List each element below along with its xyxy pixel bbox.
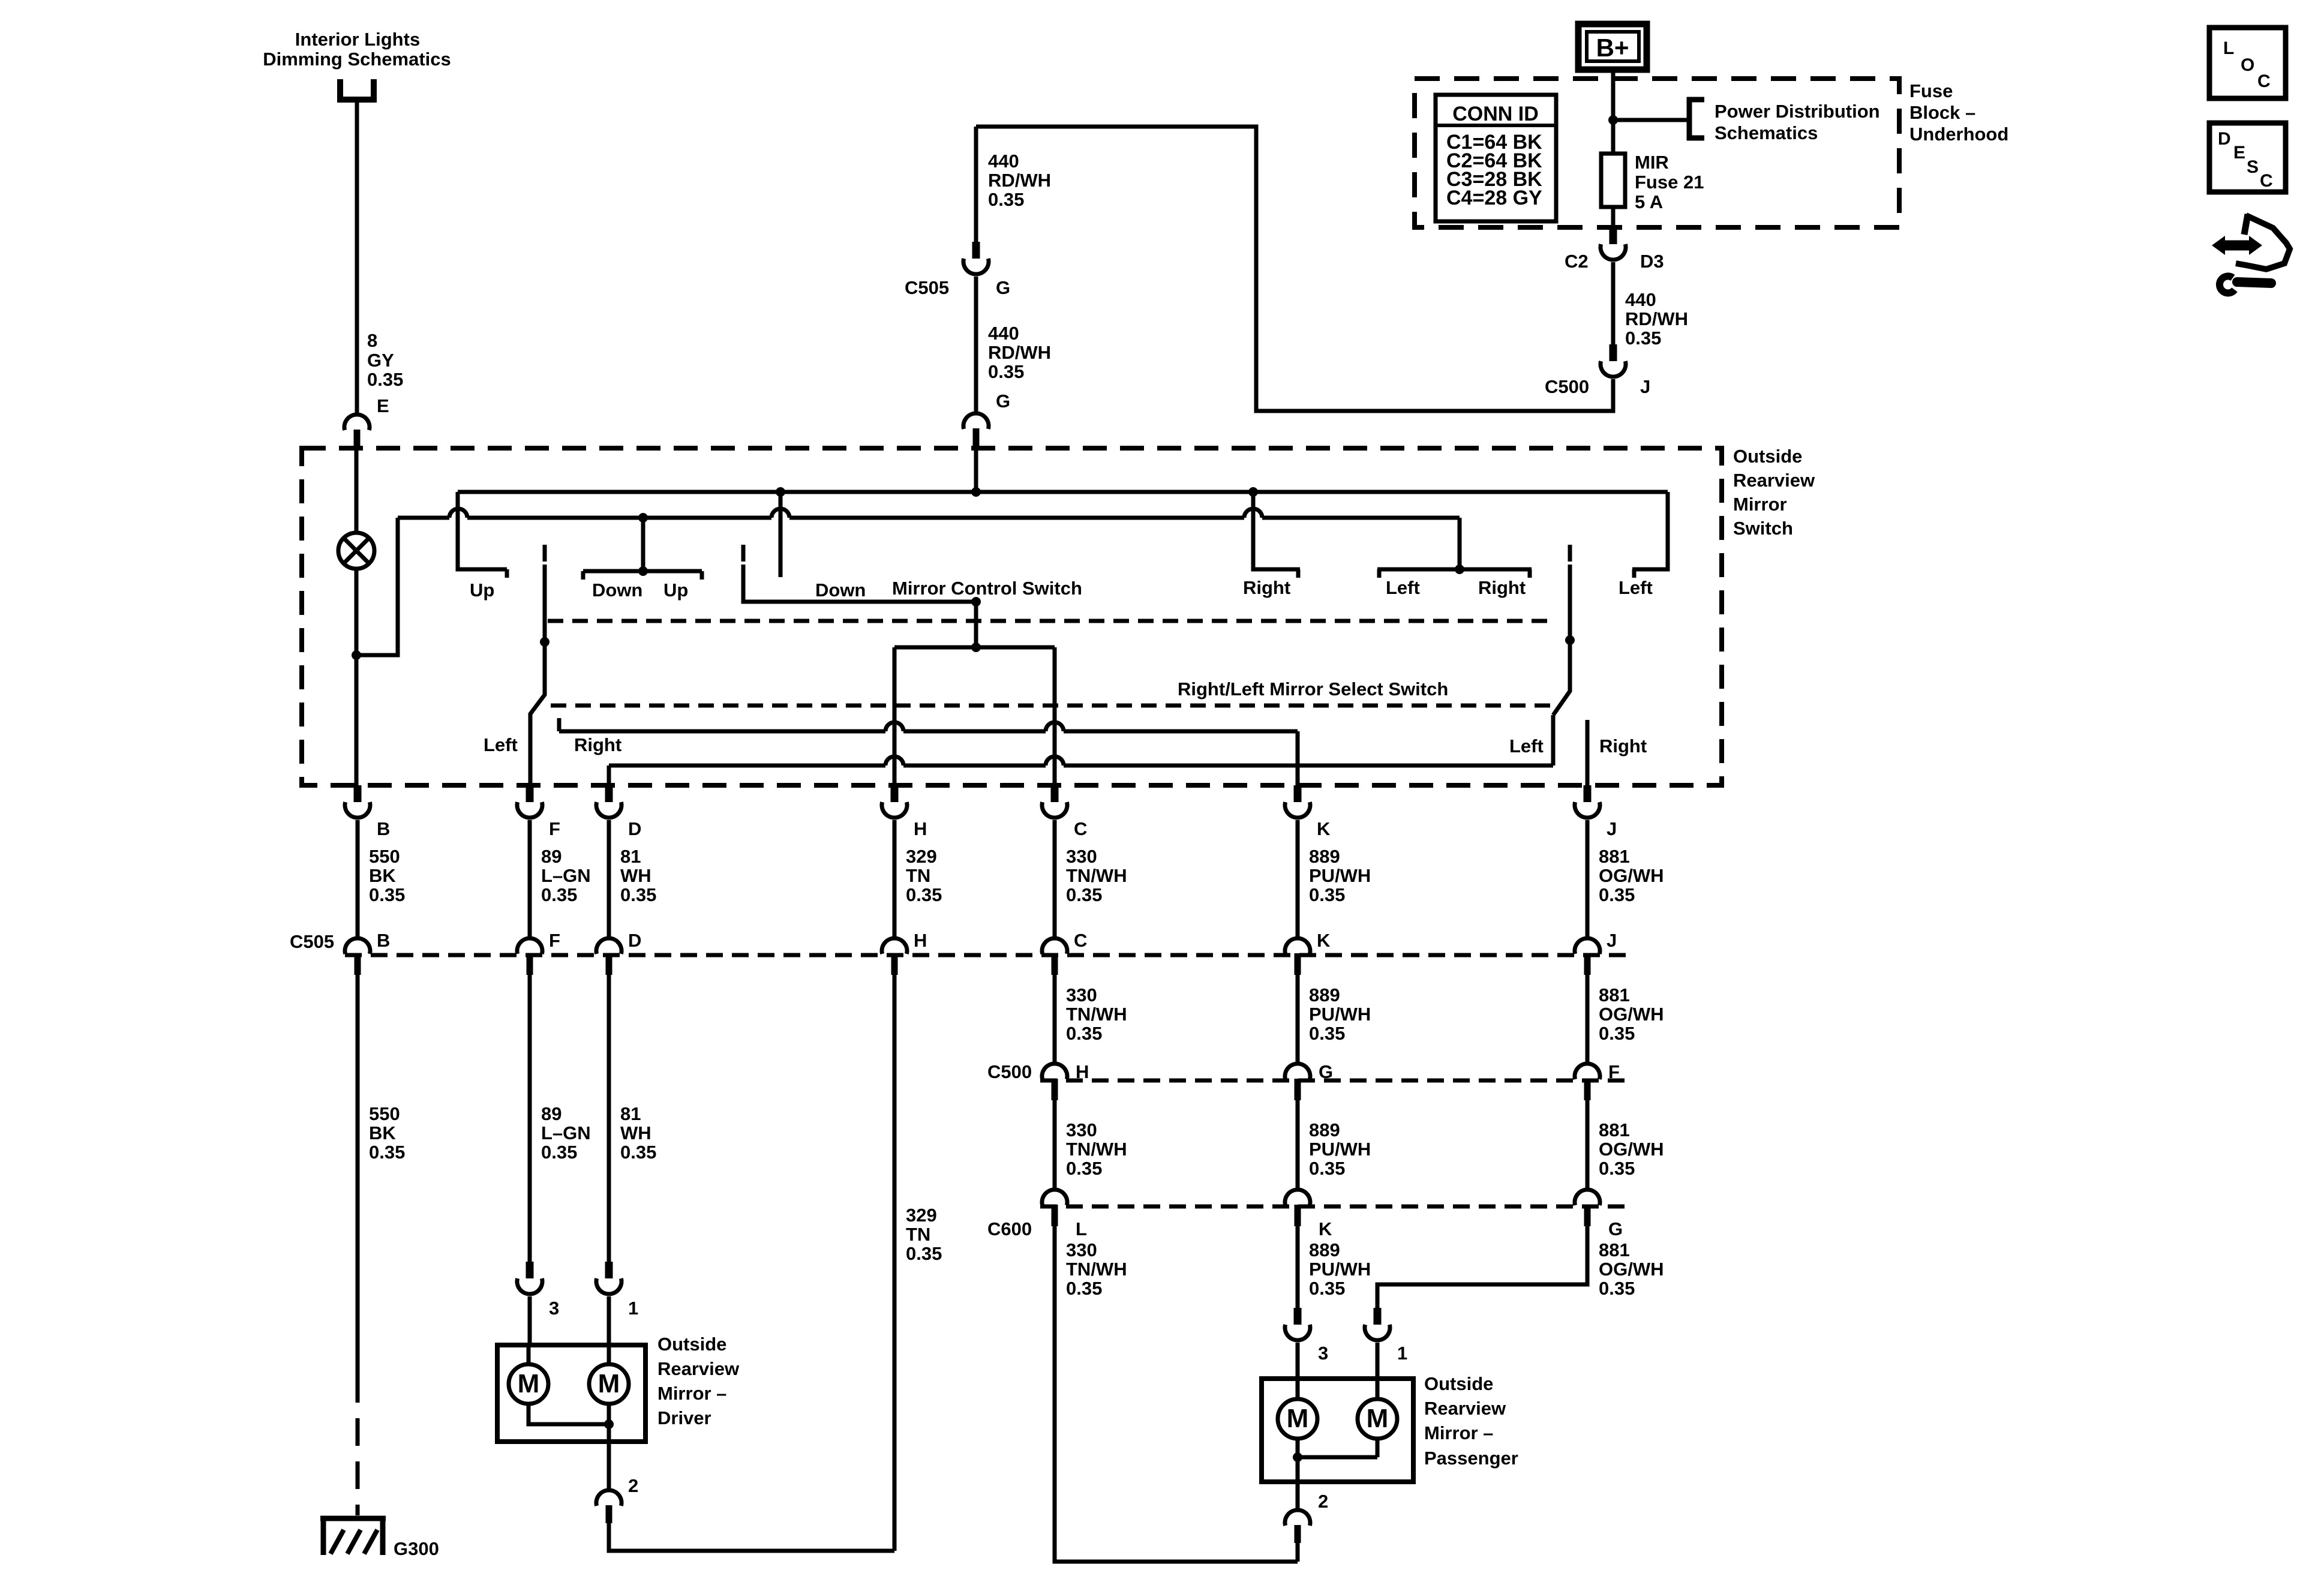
- lamp illumination (circle with X): [338, 533, 374, 569]
- label wire 440 RD/WH 0.35 (lower): [988, 323, 1051, 382]
- svg-text:889: 889: [1309, 1239, 1340, 1260]
- label wire 889 PU/WH 0.35: [1309, 1239, 1371, 1299]
- svg-text:Outside: Outside: [1733, 446, 1802, 467]
- svg-text:H: H: [1076, 1061, 1089, 1082]
- label wire 8 GY 0.35: [367, 330, 403, 390]
- svg-text:81: 81: [620, 1103, 641, 1124]
- svg-text:0.35: 0.35: [906, 884, 942, 905]
- label Power Distribution Schematics: [1715, 101, 1880, 143]
- svg-text:TN/WH: TN/WH: [1066, 1259, 1127, 1280]
- svg-text:O: O: [2241, 55, 2254, 75]
- svg-text:Right: Right: [1599, 736, 1647, 757]
- svg-text:TN/WH: TN/WH: [1066, 865, 1127, 886]
- wire motors common: [529, 1404, 609, 1424]
- wire Left select output to pin D: [609, 757, 1553, 766]
- label wire 881 OG/WH 0.35: [1599, 846, 1664, 905]
- wire 330 TN/WH output to pin C: [1053, 647, 1057, 785]
- svg-text:L–GN: L–GN: [541, 1122, 591, 1143]
- junction passenger motors common: [1293, 1452, 1302, 1462]
- connector C505 pin H: [882, 938, 907, 975]
- label wire 889 PU/WH 0.35: [1309, 846, 1371, 905]
- svg-text:Left: Left: [484, 734, 518, 755]
- wires to C500: [1055, 974, 1587, 1064]
- wire passenger pin 2 to return: [1296, 1543, 1300, 1562]
- label wire 550 BK 0.35: [369, 1103, 405, 1163]
- svg-text:330: 330: [1066, 846, 1097, 867]
- svg-text:PU/WH: PU/WH: [1309, 1004, 1371, 1025]
- wire bus 2 to Left/Right bracket: [1458, 518, 1462, 569]
- svg-text:Up: Up: [663, 580, 688, 601]
- svg-text:0.35: 0.35: [1599, 884, 1635, 905]
- svg-text:89: 89: [541, 1103, 562, 1124]
- svg-text:K: K: [1317, 818, 1331, 839]
- connector driver mirror pin 3: [517, 1262, 542, 1294]
- svg-text:BK: BK: [369, 865, 396, 886]
- svg-text:G: G: [996, 391, 1010, 412]
- label Outside Rearview Mirror - Passenger: [1424, 1373, 1518, 1469]
- svg-text:PU/WH: PU/WH: [1309, 1259, 1371, 1280]
- svg-text:RD/WH: RD/WH: [988, 170, 1051, 191]
- svg-text:1: 1: [628, 1298, 638, 1319]
- svg-text:G: G: [996, 277, 1010, 298]
- connector driver mirror pin 1: [596, 1262, 621, 1294]
- svg-text:0.35: 0.35: [1309, 1158, 1345, 1179]
- svg-text:C: C: [2257, 71, 2271, 91]
- wire 8 GY from interior lights to connector E: [355, 103, 359, 415]
- wire common to passenger pin 2: [1296, 1457, 1300, 1511]
- switch arm select switch right: [1553, 545, 1570, 715]
- DESC icon box: [2209, 123, 2286, 192]
- svg-text:Rearview: Rearview: [1733, 470, 1815, 491]
- wire Right select contact to pin J: [1586, 720, 1590, 785]
- connector C505 pin F: [517, 938, 542, 975]
- outside rearview mirror switch dashed box: [302, 448, 1722, 785]
- motor M driver horizontal: [589, 1364, 629, 1404]
- svg-text:TN/WH: TN/WH: [1066, 1004, 1127, 1025]
- svg-text:G300: G300: [394, 1538, 439, 1559]
- wire 329 TN from C505 H: [893, 974, 897, 1551]
- wire 440 RD/WH run to mirror switch: [976, 127, 1613, 411]
- junction driver motors common: [604, 1419, 614, 1429]
- off-page bracket Power Distribution Schematics: [1687, 97, 1704, 140]
- svg-text:3: 3: [1318, 1343, 1328, 1364]
- svg-text:E: E: [377, 395, 389, 416]
- wire Down/Up contact bracket: [583, 571, 702, 580]
- off-page connector bracket: [337, 79, 377, 100]
- svg-text:CONN ID: CONN ID: [1452, 103, 1539, 125]
- wire F to C505: [528, 820, 532, 939]
- wire Right select output to pin K: [559, 718, 1298, 731]
- svg-text:Mirror Control Switch: Mirror Control Switch: [892, 578, 1082, 599]
- CONN ID table: [1436, 95, 1556, 221]
- connector switch pin B: [345, 785, 370, 818]
- wire bus 1 (upper feed bus): [458, 490, 1668, 494]
- junction bus 1 Down contact: [776, 487, 785, 497]
- LOC icon box: [2209, 28, 2286, 98]
- svg-text:0.35: 0.35: [1309, 1023, 1345, 1044]
- label wire 889 PU/WH 0.35: [1309, 1119, 1371, 1179]
- svg-text:0.35: 0.35: [1066, 1278, 1102, 1299]
- svg-text:WH: WH: [620, 865, 651, 886]
- svg-text:0.35: 0.35: [1309, 884, 1345, 905]
- connector C505 pin D: [596, 938, 621, 975]
- svg-text:Dimming Schematics: Dimming Schematics: [263, 49, 451, 70]
- svg-text:881: 881: [1599, 1239, 1630, 1260]
- svg-text:F: F: [549, 930, 560, 951]
- wire control common drop: [974, 602, 978, 647]
- svg-text:B: B: [377, 930, 390, 951]
- svg-text:0.35: 0.35: [620, 1142, 656, 1163]
- wire J to C505: [1586, 820, 1590, 939]
- wire H to C505: [893, 820, 897, 939]
- wire 329 TN return run: [609, 1523, 894, 1551]
- connector C500 pin H: [1042, 1064, 1067, 1100]
- connector switch pin D: [596, 785, 621, 818]
- svg-text:0.35: 0.35: [620, 884, 656, 905]
- svg-text:1: 1: [1397, 1343, 1407, 1364]
- junction common to H/C outputs: [971, 643, 981, 652]
- wire fuse to connector C2: [1611, 207, 1616, 227]
- svg-text:2: 2: [1318, 1491, 1328, 1512]
- label C500 / J: [1545, 376, 1650, 397]
- svg-text:Mirror: Mirror: [1733, 494, 1787, 515]
- svg-text:8: 8: [367, 330, 377, 351]
- svg-text:D: D: [2218, 129, 2231, 149]
- wire 330 TN/WH to passenger pin 2: [1055, 1226, 1298, 1562]
- svg-text:0.35: 0.35: [1309, 1278, 1345, 1299]
- wire into driver mirror pin 3: [528, 1296, 532, 1345]
- junction bus 1 Right contact: [1248, 487, 1258, 497]
- connector C505 pin J: [1575, 938, 1600, 975]
- label wire 330 TN/WH 0.35: [1066, 1119, 1127, 1179]
- svg-text:Fuse 21: Fuse 21: [1635, 172, 1704, 193]
- svg-text:D3: D3: [1640, 251, 1664, 272]
- wire passenger motors common: [1298, 1439, 1377, 1457]
- wire drop to pin D: [607, 766, 611, 785]
- svg-text:Interior Lights: Interior Lights: [295, 29, 420, 50]
- svg-text:Up: Up: [470, 580, 494, 601]
- svg-text:Fuse: Fuse: [1909, 80, 1953, 101]
- svg-text:J: J: [1640, 376, 1650, 397]
- svg-text:OG/WH: OG/WH: [1599, 1004, 1664, 1025]
- svg-text:Outside: Outside: [657, 1334, 726, 1355]
- dashed connector row C500: [1040, 1079, 1632, 1083]
- wire K to C505: [1296, 820, 1300, 939]
- wire D to C505: [607, 820, 611, 939]
- ground G300: [320, 1516, 386, 1555]
- svg-text:0.35: 0.35: [1066, 884, 1102, 905]
- wire 889 PU/WH to passenger pin 3: [1296, 1226, 1300, 1308]
- fuse MIR Fuse 21 5A: [1601, 154, 1625, 207]
- svg-text:OG/WH: OG/WH: [1599, 865, 1664, 886]
- svg-text:C500: C500: [1545, 376, 1589, 397]
- wire 550 BK lamp wire pin E to pin B: [355, 448, 359, 785]
- svg-text:MIR: MIR: [1635, 152, 1669, 173]
- svg-text:Left: Left: [1509, 736, 1544, 757]
- svg-text:D: D: [628, 818, 641, 839]
- wire 81 WH to driver mirror: [607, 974, 611, 1262]
- junction select arm right pivot: [1565, 635, 1575, 645]
- svg-text:Underhood: Underhood: [1909, 124, 2008, 145]
- wire Down contact: [779, 492, 783, 577]
- connector C500 pin J (top): [1601, 344, 1626, 377]
- label Outside Rearview Mirror - Driver: [657, 1334, 740, 1428]
- wire 329 TN output to pin H: [893, 647, 897, 785]
- svg-text:889: 889: [1309, 984, 1340, 1005]
- wire bus 2 to dimming lamp: [356, 518, 398, 655]
- connector switch pin K: [1285, 785, 1310, 818]
- label wire 329 TN 0.35: [906, 1205, 942, 1264]
- svg-text:550: 550: [369, 1103, 400, 1124]
- svg-text:RD/WH: RD/WH: [988, 342, 1051, 363]
- svg-text:D: D: [628, 930, 641, 951]
- connector passenger mirror pin 3: [1285, 1308, 1310, 1340]
- svg-text:0.35: 0.35: [1066, 1023, 1102, 1044]
- svg-text:BK: BK: [369, 1122, 396, 1143]
- dashed divider select switch: [551, 704, 1554, 708]
- svg-text:PU/WH: PU/WH: [1309, 865, 1371, 886]
- svg-text:Down: Down: [592, 580, 642, 601]
- connector switch pin H: [882, 785, 907, 818]
- svg-text:0.35: 0.35: [988, 189, 1024, 210]
- wire C to C505: [1053, 820, 1057, 939]
- wire motors feeds: [529, 1345, 609, 1364]
- svg-text:L: L: [1076, 1218, 1087, 1239]
- svg-text:Block –: Block –: [1909, 102, 1975, 123]
- svg-text:TN: TN: [906, 1224, 930, 1245]
- svg-text:Mirror –: Mirror –: [1424, 1422, 1493, 1443]
- svg-text:Left: Left: [1619, 577, 1653, 598]
- wire Left contact (far right): [1632, 492, 1668, 578]
- svg-text:Schematics: Schematics: [1715, 122, 1818, 143]
- label wire 881 OG/WH 0.35: [1599, 984, 1664, 1044]
- connector driver mirror pin 2: [596, 1490, 621, 1523]
- connector C505 pin G (top): [963, 242, 989, 274]
- svg-text:0.35: 0.35: [369, 884, 405, 905]
- svg-text:K: K: [1317, 930, 1331, 951]
- svg-text:J: J: [1607, 930, 1617, 951]
- wire pin G to feed bus: [974, 448, 978, 492]
- connector service icon (double arrow, shell, wrench): [2212, 214, 2290, 293]
- wire Up contact: [458, 492, 507, 578]
- label wire 330 TN/WH 0.35: [1066, 984, 1127, 1044]
- wire select arm right lower: [1551, 715, 1556, 766]
- svg-text:B: B: [377, 818, 390, 839]
- svg-text:0.35: 0.35: [988, 361, 1024, 382]
- wire 440 RD/WH drop to C505: [974, 127, 978, 242]
- svg-text:0.35: 0.35: [369, 1142, 405, 1163]
- wire common to pin 2: [607, 1424, 611, 1491]
- svg-text:C: C: [1074, 818, 1087, 839]
- label wire 881 OG/WH 0.35: [1599, 1239, 1664, 1299]
- svg-text:Down: Down: [815, 580, 866, 601]
- connector switch pin C: [1042, 785, 1067, 818]
- junction select arm left pivot: [540, 637, 550, 647]
- svg-text:889: 889: [1309, 846, 1340, 867]
- label C2 / D3: [1565, 251, 1664, 272]
- svg-text:881: 881: [1599, 984, 1630, 1005]
- label wire 440 RD/WH 0.35 (upper): [988, 151, 1051, 210]
- svg-text:C4=28 GY: C4=28 GY: [1446, 187, 1542, 209]
- svg-text:329: 329: [906, 1205, 937, 1226]
- wire 881 OG/WH to passenger pin 1: [1377, 1226, 1587, 1308]
- svg-text:G: G: [1319, 1061, 1333, 1082]
- dashed divider mirror control switch: [548, 619, 1554, 623]
- connector C505 pin C: [1042, 938, 1067, 975]
- svg-text:0.35: 0.35: [1599, 1023, 1635, 1044]
- wire drop to pin K: [1296, 731, 1300, 785]
- svg-text:0.35: 0.35: [1599, 1278, 1635, 1299]
- label wire 89 L-GN 0.35: [541, 1103, 591, 1163]
- wire 550 BK dashed to ground: [356, 1375, 360, 1515]
- wire Right contact: [1253, 492, 1300, 578]
- svg-text:M: M: [1367, 1404, 1389, 1433]
- svg-text:0.35: 0.35: [367, 369, 403, 390]
- junction Down/Up bracket: [638, 566, 648, 576]
- svg-text:5 A: 5 A: [1635, 191, 1663, 212]
- connector C500 pin F: [1575, 1064, 1600, 1100]
- label wire 89 L&#8211;GN 0.35: [541, 846, 591, 905]
- svg-text:81: 81: [620, 846, 641, 867]
- svg-text:0.35: 0.35: [541, 884, 577, 905]
- label wire 550 BK 0.35: [369, 846, 405, 905]
- svg-text:B+: B+: [1596, 34, 1629, 62]
- junction control switch common: [971, 597, 981, 607]
- svg-text:Right/Left Mirror Select Switc: Right/Left Mirror Select Switch: [1178, 679, 1448, 700]
- svg-text:OG/WH: OG/WH: [1599, 1139, 1664, 1160]
- svg-text:881: 881: [1599, 1119, 1630, 1140]
- wire bus 2 (lower feed bus) with crossover hops: [398, 509, 1460, 518]
- wire 89 L-GN to driver mirror: [528, 974, 532, 1262]
- connector passenger mirror pin 2: [1285, 1510, 1310, 1543]
- switch arm mirror control (vertical pole): [743, 545, 976, 602]
- junction Left/Right bracket: [1455, 565, 1464, 574]
- svg-text:E: E: [2233, 143, 2245, 163]
- label MIR Fuse 21 5 A: [1635, 152, 1704, 212]
- svg-text:C500: C500: [987, 1061, 1032, 1082]
- label Outside Rearview Mirror Switch: [1733, 446, 1815, 539]
- svg-text:Rearview: Rearview: [1424, 1398, 1506, 1419]
- wire Left/Right contact bracket: [1377, 569, 1532, 578]
- svg-text:H: H: [914, 818, 927, 839]
- motor M passenger vertical: [1278, 1399, 1317, 1439]
- svg-text:M: M: [598, 1369, 620, 1398]
- svg-text:Power Distribution: Power Distribution: [1715, 101, 1880, 122]
- svg-text:440: 440: [988, 151, 1019, 172]
- wire 550 BK below C505: [356, 974, 360, 1375]
- svg-text:889: 889: [1309, 1119, 1340, 1140]
- svg-text:C2: C2: [1565, 251, 1589, 272]
- junction feed on bus 1: [971, 487, 981, 497]
- label wire 81 WH 0.35: [620, 846, 656, 905]
- svg-text:L: L: [2223, 38, 2234, 58]
- svg-text:3: 3: [549, 1298, 559, 1319]
- connector switch pin F: [517, 785, 542, 818]
- motor M driver vertical: [509, 1364, 548, 1404]
- svg-text:H: H: [914, 930, 927, 951]
- switch arm select switch left: [530, 545, 545, 785]
- wire junction to power distribution bracket: [1613, 118, 1687, 122]
- outside rearview mirror driver box: [497, 1345, 645, 1442]
- svg-text:C: C: [1074, 930, 1087, 951]
- wire 440 RD/WH to switch pin G: [974, 277, 978, 414]
- label wire 329 TN 0.35: [906, 846, 942, 905]
- wire 440 RD/WH fuse block to C500: [1611, 262, 1616, 344]
- connector C500 pin G: [1285, 1064, 1310, 1100]
- svg-text:C600: C600: [987, 1218, 1032, 1239]
- wire common output rail: [894, 646, 1055, 650]
- dashed connector row C505: [345, 953, 1632, 957]
- connector C600 pin K: [1285, 1190, 1310, 1226]
- svg-text:0.35: 0.35: [1625, 328, 1661, 349]
- fuse block underhood dashed box: [1415, 79, 1899, 227]
- svg-text:Rearview: Rearview: [657, 1358, 740, 1379]
- label C505 / G: [905, 277, 1010, 298]
- svg-text:440: 440: [988, 323, 1019, 344]
- wire into passenger pin 3: [1296, 1343, 1300, 1379]
- svg-text:330: 330: [1066, 984, 1097, 1005]
- svg-text:Right: Right: [574, 734, 621, 755]
- wire into passenger pin 1: [1376, 1343, 1380, 1379]
- svg-text:TN: TN: [906, 865, 930, 886]
- svg-text:Passenger: Passenger: [1424, 1448, 1518, 1469]
- svg-text:M: M: [1287, 1404, 1309, 1433]
- svg-text:G: G: [1608, 1218, 1623, 1239]
- label wire 330 TN/WH 0.35: [1066, 1239, 1127, 1299]
- label wire 81 WH 0.35: [620, 1103, 656, 1163]
- motor M passenger horizontal: [1358, 1399, 1397, 1439]
- svg-text:K: K: [1319, 1218, 1332, 1239]
- svg-text:0.35: 0.35: [1066, 1158, 1102, 1179]
- wire B+ feed into fuse block: [1611, 70, 1616, 154]
- junction to power distribution: [1608, 115, 1618, 125]
- svg-text:89: 89: [541, 846, 562, 867]
- svg-text:440: 440: [1625, 289, 1656, 310]
- label wire 330 TN/WH 0.35: [1066, 846, 1127, 905]
- wire passenger motor feeds: [1298, 1379, 1377, 1399]
- power symbol B+: [1578, 24, 1647, 70]
- svg-text:881: 881: [1599, 846, 1630, 867]
- svg-text:C: C: [2260, 171, 2273, 191]
- svg-text:M: M: [518, 1369, 540, 1398]
- label wire 889 PU/WH 0.35: [1309, 984, 1371, 1044]
- svg-text:330: 330: [1066, 1119, 1097, 1140]
- svg-text:OG/WH: OG/WH: [1599, 1259, 1664, 1280]
- svg-text:550: 550: [369, 846, 400, 867]
- svg-text:Driver: Driver: [657, 1407, 711, 1428]
- junction lamp wire: [352, 650, 361, 660]
- connector G at switch (cup over pin): [963, 413, 989, 448]
- junction bus 2 center bracket: [638, 513, 648, 523]
- dashed connector row C600: [1040, 1205, 1632, 1209]
- label wire 440 RD/WH 0.35 (right): [1625, 289, 1688, 349]
- connector C505 pin K: [1285, 938, 1310, 975]
- svg-text:Right: Right: [1478, 577, 1526, 598]
- svg-text:Mirror –: Mirror –: [657, 1383, 726, 1404]
- label Fuse Block - Underhood: [1909, 80, 2008, 145]
- svg-text:L–GN: L–GN: [541, 865, 591, 886]
- svg-text:Outside: Outside: [1424, 1373, 1493, 1394]
- svg-text:329: 329: [906, 846, 937, 867]
- connector C600 pin L: [1042, 1190, 1067, 1226]
- svg-text:0.35: 0.35: [1599, 1158, 1635, 1179]
- svg-text:Switch: Switch: [1733, 518, 1793, 539]
- svg-text:S: S: [2247, 157, 2259, 177]
- outside rearview mirror passenger box: [1262, 1379, 1413, 1482]
- wire bus 2 to Down/Up bracket: [641, 518, 645, 571]
- svg-text:Right: Right: [1243, 577, 1290, 598]
- connector C505 pin B: [345, 938, 370, 975]
